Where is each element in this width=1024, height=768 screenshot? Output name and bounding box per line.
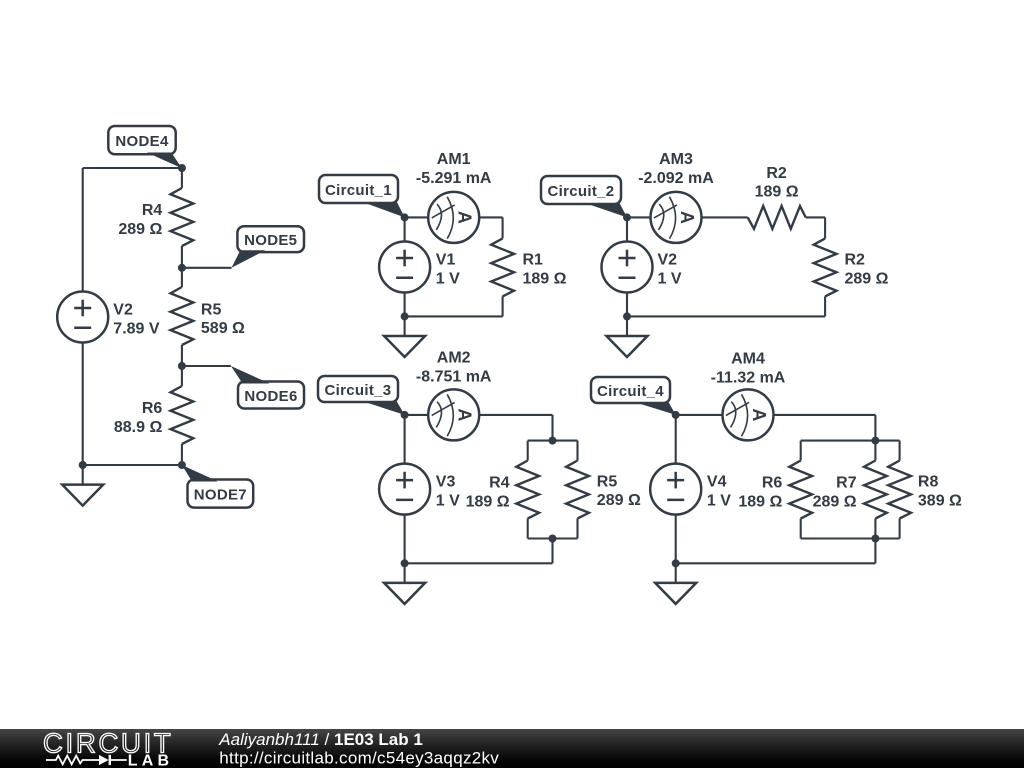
svg-text:1 V: 1 V <box>436 270 460 287</box>
svg-text:V4: V4 <box>707 474 727 491</box>
svg-text:A: A <box>749 408 769 421</box>
svg-text:Circuit_2: Circuit_2 <box>548 183 615 200</box>
svg-text:LAB: LAB <box>128 753 173 768</box>
svg-text:NODE4: NODE4 <box>115 133 169 150</box>
svg-text:R5: R5 <box>597 473 618 490</box>
svg-text:Aaliyanbh111 / 1E03 Lab 1: Aaliyanbh111 / 1E03 Lab 1 <box>218 730 423 749</box>
svg-text:-5.291 mA: -5.291 mA <box>416 170 492 187</box>
svg-text:389 Ω: 389 Ω <box>918 492 962 509</box>
svg-text:NODE7: NODE7 <box>194 487 247 504</box>
svg-text:R2: R2 <box>766 165 787 182</box>
svg-text:289 Ω: 289 Ω <box>813 493 857 510</box>
svg-text:V2: V2 <box>113 302 133 319</box>
svg-text:1 V: 1 V <box>707 492 731 509</box>
svg-text:-11.32 mA: -11.32 mA <box>711 370 786 387</box>
svg-text:R4: R4 <box>489 475 510 492</box>
svg-text:-8.751 mA: -8.751 mA <box>416 369 492 386</box>
svg-text:1 V: 1 V <box>436 492 460 509</box>
svg-text:A: A <box>455 408 475 421</box>
svg-text:R4: R4 <box>142 202 163 219</box>
svg-text:R2: R2 <box>845 252 866 269</box>
svg-text:88.9 Ω: 88.9 Ω <box>114 419 163 436</box>
svg-text:V3: V3 <box>436 474 456 491</box>
svg-text:R6: R6 <box>762 475 783 492</box>
svg-text:189 Ω: 189 Ω <box>738 493 782 510</box>
svg-text:589 Ω: 589 Ω <box>201 320 245 337</box>
svg-text:AM3: AM3 <box>659 151 693 168</box>
svg-text:R8: R8 <box>918 474 939 491</box>
svg-text:AM1: AM1 <box>437 151 471 168</box>
svg-text:189 Ω: 189 Ω <box>523 270 567 287</box>
svg-text:http://circuitlab.com/c54ey3aq: http://circuitlab.com/c54ey3aqqz2kv <box>219 748 499 767</box>
svg-text:V2: V2 <box>658 252 678 269</box>
svg-text:NODE5: NODE5 <box>244 232 297 249</box>
svg-text:289 Ω: 289 Ω <box>597 492 641 509</box>
svg-text:R7: R7 <box>836 475 857 492</box>
svg-text:R1: R1 <box>523 252 544 269</box>
svg-text:189 Ω: 189 Ω <box>755 183 799 200</box>
svg-text:V1: V1 <box>436 252 456 269</box>
svg-text:A: A <box>455 211 475 224</box>
svg-text:289 Ω: 289 Ω <box>845 270 889 287</box>
svg-text:NODE6: NODE6 <box>244 388 297 405</box>
svg-text:Circuit_1: Circuit_1 <box>325 182 392 199</box>
svg-text:A: A <box>677 211 697 224</box>
svg-text:-2.092 mA: -2.092 mA <box>638 170 714 187</box>
svg-text:AM2: AM2 <box>437 350 471 367</box>
svg-text:Circuit_4: Circuit_4 <box>597 383 664 400</box>
svg-text:289 Ω: 289 Ω <box>118 221 162 238</box>
svg-text:Circuit_3: Circuit_3 <box>325 382 392 399</box>
svg-text:R6: R6 <box>142 400 163 417</box>
svg-text:AM4: AM4 <box>731 351 765 368</box>
svg-text:R5: R5 <box>201 301 222 318</box>
svg-text:7.89 V: 7.89 V <box>113 320 160 337</box>
svg-text:189 Ω: 189 Ω <box>466 493 510 510</box>
svg-text:1 V: 1 V <box>658 270 682 287</box>
